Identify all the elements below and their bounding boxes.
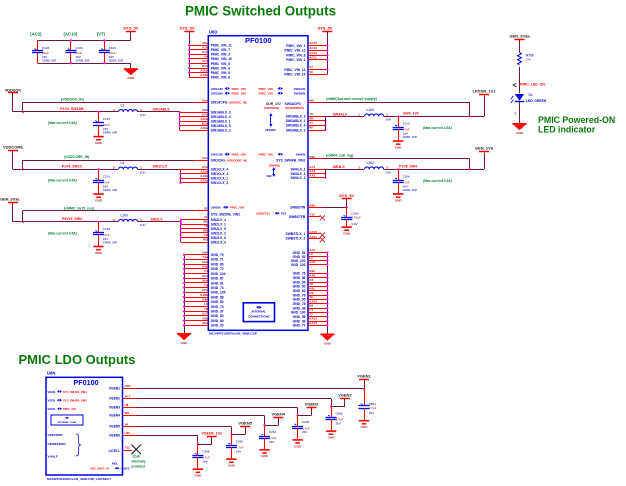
wire: pin GND_96: [308, 316, 327, 318]
svg-text:(SW2CFG): (SW2CFG): [257, 212, 270, 216]
svg-text:CERM_X5R: CERM_X5R: [109, 59, 123, 63]
svg-text:AC7: AC7: [125, 394, 131, 398]
wire: pin SW1ACFG: [194, 102, 208, 104]
wire: SW4 feedback to GEN_1V8: [322, 158, 470, 160]
wire: VGEN1 net: [137, 388, 364, 390]
wire: VGEN3 net: [137, 407, 298, 409]
svg-text:SW3ABLX_2: SW3ABLX_2: [286, 128, 306, 132]
svg-text:U6D: U6D: [209, 29, 217, 34]
junction (SW3ABLX_1): [324, 120, 326, 122]
svg-text:A5a: A5a: [202, 165, 208, 169]
wire: pin PMIC_VIN_7: [189, 49, 208, 51]
wire: pin GND_89: [184, 320, 208, 322]
svg-text:6.3V: 6.3V: [351, 222, 357, 226]
svg-text:PMIC_VIN: PMIC_VIN: [230, 206, 244, 210]
junction (PMIC_VIN_8): [326, 54, 328, 56]
wire: pin GND_74: [184, 306, 208, 308]
junction (GND_103): [326, 263, 328, 265]
svg-text:VGEN1: VGEN1: [357, 373, 371, 378]
wire: SW4LX to L102: [325, 169, 364, 171]
no-connect X SWBSTFB: [320, 215, 325, 220]
svg-text:VGEN2: VGEN2: [338, 393, 352, 398]
wire: LPDDR_1V2 riser: [484, 95, 486, 116]
junction (GND_95): [326, 298, 328, 300]
svg-text:A7b: A7b: [202, 288, 208, 292]
wire: pin GND_100: [308, 312, 327, 314]
svg-text:A4b: A4b: [202, 298, 208, 302]
wire: pin GND_91: [308, 252, 327, 254]
inductor L4: [119, 167, 138, 169]
wire: pin SW2LX_4: [181, 219, 208, 221]
wire: VGEN5 flag riser: [245, 426, 247, 434]
junction (GND_93): [183, 324, 185, 326]
wire: cap bank bottom rail: [38, 63, 131, 65]
svg-text:AC8: AC8: [309, 260, 315, 264]
capacitor C202: [331, 406, 333, 417]
wire: pin SW1ABLX_1: [180, 121, 209, 123]
junction (GND_96): [326, 316, 328, 318]
wire: pin SW2LX_2: [181, 232, 208, 234]
wire: feedback drop to LX net: [469, 159, 471, 170]
svg-text:C: C: [515, 112, 517, 116]
svg-text:PMIC_VIN_4: PMIC_VIN_4: [211, 66, 230, 70]
svg-text:A11b: A11b: [200, 68, 207, 72]
svg-text:GND: GND: [95, 141, 103, 145]
svg-text:PMIC_VIN_1: PMIC_VIN_1: [286, 44, 305, 48]
junction (GEN_1V8 riser): [468, 168, 470, 170]
svg-text:PMIC_VIN_14: PMIC_VIN_14: [284, 73, 305, 77]
wire: pin VGEN3: [123, 407, 138, 409]
capacitor C205: [231, 434, 233, 445]
svg-text:GND: GND: [228, 464, 236, 468]
junction (GND_74): [183, 305, 185, 307]
wire: SW1ACFG feedback (VDDSOC_IN): [23, 102, 194, 104]
svg-text:V8: V8: [309, 70, 313, 74]
wire: left GND bus: [184, 255, 186, 333]
svg-text:A6a: A6a: [202, 41, 208, 45]
junction (feedback tap): [22, 168, 24, 170]
junction (GND_89): [183, 320, 185, 322]
svg-text:A13: A13: [202, 59, 208, 63]
inductor L2: [119, 110, 138, 112]
junction (GND_94): [326, 281, 328, 283]
wire: SW3 feedback to LPDDR_1V2: [322, 102, 470, 104]
wire: pin PMIC_VIN_13: [308, 69, 327, 71]
svg-text:VGEN4: VGEN4: [272, 411, 286, 416]
svg-text:Y7: Y7: [309, 121, 313, 125]
svg-text:T4: T4: [204, 269, 208, 273]
junction (GND_79): [183, 254, 185, 256]
ground of C205: [226, 458, 236, 460]
svg-text:W3: W3: [203, 238, 208, 242]
svg-text:SYS_5V: SYS_5V: [339, 193, 354, 198]
power flag VGEN2: [340, 398, 350, 400]
svg-text:SWBSTFB: SWBSTFB: [289, 215, 306, 219]
svg-text:16V: 16V: [103, 184, 108, 188]
svg-text:GEN_3V3a: GEN_3V3a: [509, 34, 530, 39]
junction (SW2LX_5): [180, 227, 182, 229]
svg-text:1UH: 1UH: [385, 117, 391, 121]
svg-text:SW1CLX: SW1CLX: [153, 164, 168, 168]
svg-text:VGEN: VGEN: [48, 398, 56, 402]
junction (GND_92): [326, 255, 328, 257]
svg-text:GND: GND: [127, 76, 135, 80]
op-amp U6N PF0100 LDO section body: [46, 377, 123, 475]
junction (SW1CLX_1): [179, 173, 181, 175]
junction (GND_82): [183, 301, 185, 303]
svg-text:GND: GND: [328, 436, 336, 440]
svg-text:GND: GND: [343, 232, 351, 236]
svg-text:Y5: Y5: [309, 112, 313, 116]
junction (PMIC_VIN_7): [188, 49, 190, 51]
junction (SW2LX_1): [180, 223, 182, 225]
inductor L103: [365, 114, 384, 116]
wire: feedback drop: [22, 160, 24, 169]
junction (C123 bottom): [70, 62, 72, 64]
svg-text:INTERNAL CONN: INTERNAL CONN: [58, 421, 76, 424]
svg-text:16V: 16V: [269, 440, 274, 444]
svg-text:A5c: A5c: [202, 274, 208, 278]
svg-text:C204: C204: [269, 430, 277, 434]
wire: VDDCORE down to SW1C rail: [12, 150, 14, 169]
junction (GND_105): [183, 291, 185, 293]
svg-text:(Max current 4.5A): (Max current 4.5A): [48, 179, 77, 183]
svg-text:AC12: AC12: [309, 51, 317, 55]
junction (GND_91): [326, 251, 328, 253]
power flag VGEN6_1V2: [207, 436, 217, 438]
svg-text:A15: A15: [202, 64, 208, 68]
wire: pin PMIC_VIN_12: [308, 50, 327, 52]
svg-text:W1: W1: [203, 220, 208, 224]
capacitor C206: [197, 445, 199, 456]
svg-text:SW2LX: SW2LX: [151, 218, 164, 222]
svg-text:16V: 16V: [109, 55, 114, 59]
svg-text:INTERNAL: INTERNAL: [252, 310, 267, 314]
svg-text:(eMMC_3v15_reg): (eMMC_3v15_reg): [64, 206, 94, 210]
svg-text:W6: W6: [309, 98, 314, 102]
net label arrow PMIC_LED_ON: [513, 83, 516, 87]
svg-text:(eMMC3va and onxxv2 supply): (eMMC3va and onxxv2 supply): [326, 97, 377, 101]
svg-text:SW1CIN: SW1CIN: [211, 153, 223, 157]
svg-text:VGEN: VGEN: [48, 390, 56, 394]
svg-text:T2: T2: [204, 224, 208, 228]
svg-text:A3b: A3b: [202, 316, 208, 320]
svg-text:A16: A16: [202, 45, 208, 49]
wire: pin SWBSTLX_2 (no connect): [308, 238, 320, 240]
svg-text:A6e: A6e: [202, 279, 208, 283]
wire: pin PMIC_VIN_11: [189, 45, 208, 47]
wire: VGEN4 flag riser: [278, 417, 280, 425]
svg-text:P1V4_SW1AB: P1V4_SW1AB: [60, 107, 84, 111]
junction (GND_72): [183, 268, 185, 270]
svg-text:C205: C205: [236, 439, 244, 443]
junction (VGEN4): [263, 424, 265, 426]
wire: SW3_1V2 net: [384, 116, 470, 118]
wire: right GND bus: [327, 253, 329, 334]
svg-text:SW3ABLX_4: SW3ABLX_4: [286, 124, 306, 128]
svg-text:PMIC LDO Outputs: PMIC LDO Outputs: [19, 352, 136, 367]
svg-text:GND: GND: [294, 444, 302, 448]
svg-text:4.7uF: 4.7uF: [369, 406, 377, 410]
svg-text:GND: GND: [95, 199, 103, 203]
svg-text:PMIC_VIN_3: PMIC_VIN_3: [211, 53, 230, 57]
svg-text:MC34PF0100EPxxAB_49WLCSP_LDOSE: MC34PF0100EPxxAB_49WLCSP_LDOSECT: [47, 477, 111, 481]
svg-text:AC13: AC13: [309, 46, 317, 50]
junction (LPDDR riser): [468, 115, 470, 117]
svg-text:(VDDCORE_IN): (VDDCORE_IN): [227, 158, 247, 162]
junction (SW2LX_2): [180, 232, 182, 234]
inductor L102: [365, 167, 384, 169]
svg-text:GND: GND: [516, 131, 524, 135]
wire: pin GND_87: [184, 278, 208, 280]
svg-text:C206: C206: [202, 450, 210, 454]
svg-text:PMIC_VIN: PMIC_VIN: [259, 153, 273, 157]
svg-text:P1V4_SW1C: P1V4_SW1C: [62, 165, 83, 169]
wire: VGEN5 flag link: [231, 434, 245, 436]
wire: pin GND_103: [308, 264, 327, 266]
wire: cap bank top rail: [38, 40, 131, 42]
internal connections box (main IC): [243, 303, 274, 322]
svg-text:GND_88: GND_88: [211, 295, 224, 299]
svg-text:0.22uF: 0.22uF: [351, 215, 361, 219]
wire: pin PMIC_VIN_5: [189, 63, 208, 65]
svg-text:16V: 16V: [336, 421, 341, 425]
wire: pin SW1CLX_3: [181, 182, 209, 184]
junction (PMIC_VIN_4): [188, 67, 190, 69]
capacitor C102: [98, 222, 100, 233]
junction (SW2LX_6): [180, 236, 182, 238]
capacitor C203: [297, 415, 299, 426]
wire: left VIN vertical bus: [189, 31, 191, 77]
junction (VGEN6_1V2): [197, 443, 199, 445]
svg-text:VGEN3: VGEN3: [305, 401, 319, 406]
wire: pin SW1ABLX_3: [180, 112, 209, 114]
wire: SW1ABLX vertical bus: [179, 112, 181, 130]
junction (feedback tap): [22, 111, 24, 113]
svg-text:GND: GND: [261, 454, 269, 458]
svg-text:D4: D4: [529, 93, 533, 97]
svg-text:AC11: AC11: [309, 56, 317, 60]
wire: pin SW4LX_1: [308, 169, 325, 171]
svg-text:SW1CFG: SW1CFG: [211, 158, 226, 162]
svg-text:(AC10): (AC10): [64, 32, 78, 37]
wire: R786 to LED D4: [519, 67, 521, 94]
wire: pin SW1CLX_1: [181, 173, 209, 175]
ground (cap bank): [124, 68, 138, 70]
wire: feedback drop to LX net: [469, 102, 471, 116]
svg-text:Y2: Y2: [204, 233, 208, 237]
svg-text:PMIC_VIN: PMIC_VIN: [232, 153, 246, 157]
wire: pin PMIC_VIN_8: [308, 55, 327, 57]
junction (GND_100): [326, 311, 328, 313]
ground of C109: [393, 193, 403, 195]
svg-text:PMIC_VIN: PMIC_VIN: [259, 92, 273, 96]
ground of C204: [259, 449, 269, 451]
wire: VGEN2 flag link: [331, 406, 345, 408]
wire: VGEN3 drop: [297, 408, 299, 416]
ground of C113: [393, 140, 403, 142]
power flag VGEN4: [273, 417, 283, 419]
svg-text:CERM_X5R: CERM_X5R: [75, 59, 89, 63]
wire: pin GND_79: [184, 254, 208, 256]
junction (GND_88): [183, 296, 185, 298]
svg-text:A7a: A7a: [202, 112, 208, 116]
wire: bottom rail to ground: [130, 63, 132, 68]
svg-text:W2: W2: [203, 229, 208, 233]
svg-text:(Max current 4.5A): (Max current 4.5A): [48, 121, 77, 125]
svg-text:A9: A9: [204, 55, 208, 59]
wire: GEN_1V8 riser: [484, 153, 486, 170]
power flag VGEN5: [240, 426, 250, 428]
svg-text:PMIC_VIN_6: PMIC_VIN_6: [211, 75, 230, 79]
svg-text:SW2AIN: SW2AIN: [294, 87, 306, 91]
svg-text:DDR_1V2: DDR_1V2: [266, 102, 281, 106]
svg-text:VDD_SNVS_IN: VDD_SNVS_IN: [90, 467, 109, 471]
wire: SW4LX vertical bus: [325, 169, 327, 177]
svg-text:GND_93: GND_93: [211, 324, 224, 328]
svg-text:C113: C113: [403, 121, 410, 125]
svg-text:SW1AIN: SW1AIN: [211, 87, 223, 91]
wire: right VIN vertical bus: [327, 31, 329, 74]
svg-text:GND: GND: [361, 425, 369, 429]
svg-text:SW3ABLX_3: SW3ABLX_3: [286, 115, 306, 119]
wire: pin PMIC_VIN_2: [308, 59, 327, 61]
svg-text:VGEN6: VGEN6: [109, 434, 120, 438]
svg-text:SWBSTIN: SWBSTIN: [290, 206, 306, 210]
svg-text:1UH: 1UH: [385, 170, 391, 174]
wire: feedback drop: [22, 102, 24, 112]
wire: pin GND_83: [184, 315, 208, 317]
wire: pin PMIC_VIN_10: [189, 58, 208, 60]
wire: pin GND_86: [308, 277, 327, 279]
ground of C100: [342, 226, 352, 228]
wire: pin GND_90: [308, 286, 327, 288]
svg-text:AA14: AA14: [309, 321, 317, 325]
svg-text:A9b: A9b: [202, 250, 208, 254]
svg-text:16V: 16V: [103, 127, 108, 131]
svg-text:VINREFDDR: VINREFDDR: [48, 442, 67, 446]
svg-text:16V: 16V: [42, 55, 47, 59]
wire: pin GND_104: [184, 273, 208, 275]
wire: pin VGEN2: [123, 398, 138, 400]
svg-text:SYS_SW4FB_VIN1: SYS_SW4FB_VIN1: [63, 390, 87, 394]
svg-text:FB2: FB2: [281, 212, 287, 216]
svg-text:A8a: A8a: [202, 321, 208, 325]
svg-text:Y12: Y12: [309, 213, 315, 217]
wire: pin GND_81: [184, 282, 208, 284]
svg-text:L103: L103: [367, 108, 374, 112]
wire: pin GND_92: [308, 256, 327, 258]
junction (SW1ABLX_3): [179, 111, 181, 113]
svg-text:GND_105: GND_105: [211, 291, 226, 295]
capacitor C109: [398, 169, 400, 180]
svg-text:.22uF: .22uF: [132, 455, 140, 459]
svg-text:16V: 16V: [369, 411, 374, 415]
wire: P1V4_SW1AB rail: [13, 111, 118, 113]
no-connect X SWBSTLX_2: [320, 237, 325, 242]
svg-text:PMIC_VIN_10: PMIC_VIN_10: [211, 57, 232, 61]
svg-text:1UH: 1UH: [140, 113, 146, 117]
svg-text:GND: GND: [395, 198, 403, 202]
capacitor C114: [98, 169, 100, 180]
svg-text:SWBSTLX_1: SWBSTLX_1: [286, 232, 306, 236]
junction (SWBSTIN tap): [346, 206, 348, 208]
ground (right GND bus): [320, 334, 334, 336]
wire: VGEN3 flag link: [298, 415, 312, 417]
wire: SW1ABLX net: [138, 111, 180, 113]
svg-text:A6a: A6a: [202, 98, 208, 102]
svg-text:(Max current 4.5A): (Max current 4.5A): [423, 179, 452, 183]
wire: pin SW1CLX_2: [181, 178, 209, 180]
svg-text:Y11: Y11: [125, 446, 131, 450]
svg-text:C124: C124: [109, 46, 117, 50]
svg-text:SW1ACFG: SW1ACFG: [211, 101, 228, 105]
svg-text:A6d: A6d: [202, 260, 208, 264]
junction (C124 top): [103, 39, 105, 41]
wire: pin GND_98: [308, 308, 327, 310]
svg-text:GND_104: GND_104: [211, 272, 226, 276]
wire: pin GND_95: [308, 299, 327, 301]
svg-text:provided: provided: [132, 465, 146, 469]
svg-text:PMIC_VIN_7: PMIC_VIN_7: [211, 48, 230, 52]
junction (SW4LX_2): [324, 177, 326, 179]
svg-text:16V: 16V: [75, 55, 80, 59]
wire: P3V15_SW2 rail: [13, 221, 118, 223]
junction (SW2LX_4): [180, 218, 182, 220]
svg-text:16V: 16V: [403, 131, 408, 135]
svg-text:CERM_X5R: CERM_X5R: [103, 241, 117, 245]
svg-text:(Max current 4.5A): (Max current 4.5A): [48, 231, 77, 235]
svg-text:A10a: A10a: [200, 170, 208, 174]
svg-text:V7: V7: [309, 65, 313, 69]
svg-text:SW2LX_6: SW2LX_6: [211, 236, 226, 240]
svg-text:A5b: A5b: [202, 108, 208, 112]
wire: pin GND_102: [308, 260, 327, 262]
svg-text:SWBSTLX_2: SWBSTLX_2: [286, 237, 306, 241]
svg-text:SW2IN: SW2IN: [211, 206, 221, 210]
svg-text:GND_89: GND_89: [211, 319, 224, 323]
wire: pin GND_97: [184, 311, 208, 313]
junction (GND_87): [183, 277, 185, 279]
svg-text:(VDDSOC_IN): (VDDSOC_IN): [229, 101, 247, 105]
svg-text:SW3ACFG: SW3ACFG: [285, 102, 302, 106]
junction (PMIC_VIN_3): [188, 53, 190, 55]
svg-text:SW4IN: SW4IN: [296, 153, 306, 157]
op-amp U6D PF0100 main PMIC IC body: [208, 36, 308, 331]
wire: pin SW1ABLX_4: [180, 116, 209, 118]
svg-text:A8b: A8b: [309, 203, 315, 207]
svg-text:VGEN5: VGEN5: [109, 425, 120, 429]
wire: pin GND_78: [308, 303, 327, 305]
svg-text:(AC2): (AC2): [30, 32, 42, 37]
svg-text:FB2: FB2: [266, 174, 272, 178]
wire: feedback drop: [22, 211, 24, 222]
wire: SW1CLX vertical bus: [180, 169, 182, 183]
svg-text:LED indicator: LED indicator: [538, 125, 596, 135]
svg-text:GEN_1V8: GEN_1V8: [475, 146, 494, 151]
svg-text:SYS_5V: SYS_5V: [179, 25, 194, 30]
svg-text:V9: V9: [125, 422, 129, 426]
wire: pin VGEN1: [123, 388, 138, 390]
svg-text:PMIC_VIN: PMIC_VIN: [63, 407, 76, 411]
wire: pin SW3ABLX_4: [308, 125, 325, 127]
wire: SYS_5V riser: [346, 199, 348, 208]
ground of C107: [93, 136, 103, 138]
wire: pin PMIC_VIN_14: [308, 74, 327, 76]
svg-text:C203: C203: [302, 420, 310, 424]
wire: pin SYS_SW4FB_VIN1: [308, 158, 322, 160]
wire: SYS_5V to cap bank top rail: [130, 31, 132, 40]
